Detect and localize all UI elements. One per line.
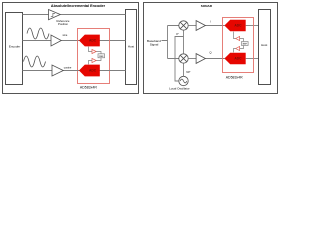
REF box right — [242, 42, 249, 46]
svg-text:Host: Host — [261, 43, 267, 47]
wire LO to mixers — [183, 30, 185, 54]
wire sine path — [23, 40, 52, 42]
wire cosine path — [23, 70, 53, 72]
ADC 2 (cosine) — [79, 65, 100, 77]
wire buffer to ADC4 — [234, 49, 236, 53]
svg-text:AD583x4R: AD583x4R — [226, 76, 243, 80]
ref buffer B4 — [236, 47, 240, 51]
mixer M2 (Q) — [179, 54, 188, 63]
wire buffer to REF right — [240, 39, 244, 42]
svg-text:Encoder: Encoder — [9, 45, 20, 49]
chip box AD583x4R right — [223, 18, 254, 73]
wire buffer to REF — [96, 52, 101, 54]
sine wave symbol — [27, 28, 49, 39]
chip box AD583x4R left — [78, 29, 110, 84]
svg-text:sine: sine — [63, 33, 68, 37]
svg-text:Local Oscillator: Local Oscillator — [169, 86, 190, 90]
svg-text:Signal: Signal — [150, 42, 159, 46]
ref buffer B1 — [92, 49, 96, 53]
wire ADC3 to buffer — [234, 32, 236, 39]
right panel border — [144, 3, 278, 94]
encoder box — [6, 13, 23, 85]
svg-text:REF: REF — [243, 44, 248, 46]
svg-text:90°: 90° — [186, 70, 190, 74]
wire Q path — [188, 58, 196, 60]
svg-text:cosine: cosine — [64, 65, 72, 69]
svg-text:ADC: ADC — [234, 24, 242, 28]
svg-text:0°: 0° — [176, 32, 179, 36]
svg-text:Absolute/Incremental Encoder: Absolute/Incremental Encoder — [51, 4, 106, 8]
ref buffer B2 — [92, 58, 96, 62]
svg-text:Host: Host — [128, 45, 134, 49]
wire REF to buffer 4 — [240, 46, 244, 49]
svg-text:ADC: ADC — [89, 39, 97, 43]
wire buffer to ADC2 — [89, 61, 93, 65]
wire baseband split — [162, 26, 179, 59]
svg-text:AD583x4R: AD583x4R — [80, 86, 97, 90]
amplifier A2 (cosine) — [52, 65, 63, 76]
left panel border — [3, 3, 139, 94]
wire reference path — [23, 14, 49, 16]
wire REF to buffer 2 — [96, 58, 101, 61]
ADC 3 (I) — [224, 20, 245, 32]
svg-text:ADC: ADC — [89, 69, 97, 73]
amplifier A4 (Q) — [196, 54, 205, 64]
host box left — [126, 10, 137, 85]
comparator U1 (schmitt) — [49, 10, 61, 20]
svg-text:Position: Position — [58, 22, 68, 26]
ADC 4 (Q) — [224, 53, 245, 65]
wire 0 degree path — [175, 37, 184, 82]
svg-text:REF: REF — [99, 56, 104, 58]
local oscillator — [179, 76, 188, 85]
ref buffer B3 — [236, 37, 240, 41]
wire ref buffer top — [89, 47, 93, 52]
svg-text:SONAR: SONAR — [201, 4, 213, 8]
REF box — [98, 54, 105, 58]
wire I path — [188, 25, 196, 27]
amplifier A1 (sine) — [51, 35, 61, 46]
cosine wave symbol — [24, 56, 46, 67]
mixer M1 (I) — [179, 21, 188, 30]
ADC 1 (sine) — [79, 35, 100, 47]
amplifier A3 (I) — [196, 21, 205, 31]
host box right — [259, 10, 271, 85]
svg-text:ADC: ADC — [234, 57, 242, 61]
